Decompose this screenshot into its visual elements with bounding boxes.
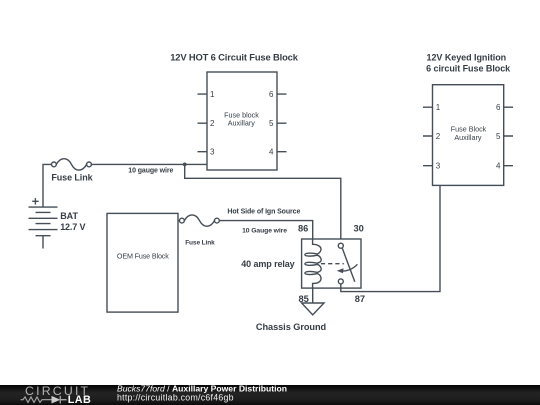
U2 pin stubs 1-6	[423, 107, 513, 166]
svg-text:2: 2	[436, 132, 441, 141]
F2 fuse wire element	[184, 215, 214, 226]
battery plates and negative terminal	[29, 207, 58, 248]
svg-text:1: 1	[210, 90, 215, 99]
svg-text:http://circuitlab.com/c6f46gb: http://circuitlab.com/c6f46gb	[117, 392, 234, 402]
switch contact bottom pin87	[338, 279, 343, 284]
svg-text:Auxillary: Auxillary	[454, 133, 482, 142]
U2 body	[433, 85, 504, 186]
logo resistor zigzag	[21, 397, 52, 403]
svg-text:12V Keyed Ignition: 12V Keyed Ignition	[427, 53, 507, 63]
wire fuse link F2 to relay pin 86	[219, 221, 312, 239]
svg-text:6: 6	[269, 90, 274, 99]
wire relay pin 85 to ground	[312, 288, 314, 303]
svg-text:10 Gauge wire: 10 Gauge wire	[242, 228, 287, 235]
logo diode bar and lead	[60, 396, 66, 404]
relay body	[302, 239, 361, 288]
footer bar	[0, 385, 540, 405]
svg-text:3: 3	[436, 162, 441, 171]
switch blade	[342, 248, 355, 281]
actuation arrow	[341, 264, 358, 271]
wire node to relay pin 30	[185, 164, 341, 239]
F1 fuse wire element	[56, 159, 86, 170]
OEM fuse block	[107, 213, 178, 312]
CircuitLab logo	[21, 384, 92, 405]
wire relay pin 87 to keyed fuse block U2	[341, 185, 440, 291]
svg-text:3: 3	[210, 148, 215, 157]
battery V1 BAT 12.7V	[29, 198, 86, 248]
wire fuse link F1 to fuse block U1	[91, 163, 207, 165]
U1 pin stubs 1-6	[198, 94, 287, 152]
svg-text:87: 87	[355, 294, 365, 304]
wire battery positive to fuse link F1	[43, 164, 52, 207]
F1 right terminal	[87, 162, 92, 167]
svg-text:5: 5	[269, 119, 274, 128]
svg-text:1: 1	[436, 103, 441, 112]
logo diode triangle	[52, 396, 61, 404]
fuse link F2	[178, 215, 219, 247]
svg-text:4: 4	[269, 148, 274, 157]
svg-text:Fuse Link: Fuse Link	[51, 173, 93, 183]
svg-text:LAB: LAB	[68, 394, 91, 405]
switch contact top pin30	[338, 243, 343, 248]
svg-text:6: 6	[496, 103, 501, 112]
svg-text:Hot Side of Ign Source: Hot Side of Ign Source	[227, 208, 300, 215]
svg-text:Auxillary: Auxillary	[228, 119, 256, 128]
node junction	[183, 163, 187, 167]
dashed link	[321, 263, 344, 265]
svg-text:40 amp relay: 40 amp relay	[241, 259, 294, 269]
fuse block U1 12V HOT	[198, 72, 287, 170]
relay RLY1 40 amp	[302, 239, 361, 288]
chassis ground symbol	[302, 303, 324, 315]
svg-text:OEM Fuse Block: OEM Fuse Block	[117, 252, 169, 261]
svg-text:5: 5	[496, 132, 501, 141]
svg-text:12.7 V: 12.7 V	[60, 222, 85, 232]
svg-text:6 circuit Fuse Block: 6 circuit Fuse Block	[426, 63, 511, 73]
fuse link F1	[51, 159, 93, 183]
svg-text:Fuse Link: Fuse Link	[185, 240, 215, 247]
svg-text:30: 30	[354, 223, 364, 233]
battery plus sign	[32, 198, 38, 204]
F1 left terminal	[52, 162, 57, 167]
U1 body	[207, 72, 277, 170]
svg-text:4: 4	[496, 162, 501, 171]
OEM block body	[107, 213, 178, 312]
svg-text:12V HOT 6 Circuit Fuse Block: 12V HOT 6 Circuit Fuse Block	[170, 52, 299, 63]
svg-text:10 gauge wire: 10 gauge wire	[128, 167, 173, 174]
svg-text:86: 86	[298, 223, 308, 233]
svg-text:Chassis Ground: Chassis Ground	[256, 322, 326, 332]
F2 right terminal	[215, 218, 220, 223]
svg-text:2: 2	[210, 119, 215, 128]
svg-text:BAT: BAT	[60, 211, 78, 221]
wire OEM block to F2	[178, 220, 180, 222]
F2 left terminal	[180, 218, 185, 223]
relay coil	[305, 239, 321, 288]
fuse block U2 12V Keyed Ignition	[423, 85, 513, 186]
